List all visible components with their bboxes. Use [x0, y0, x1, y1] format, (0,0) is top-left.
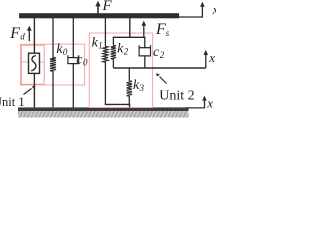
svg-text:x: x	[212, 2, 216, 17]
svg-text:2: 2	[160, 50, 165, 60]
svg-text:2: 2	[124, 46, 129, 56]
svg-text:0: 0	[83, 58, 88, 68]
svg-text:d: d	[20, 32, 25, 42]
svg-text:s: s	[166, 28, 170, 38]
svg-text:x: x	[206, 95, 213, 110]
svg-text:Unit 2: Unit 2	[159, 88, 194, 103]
svg-text:0: 0	[63, 47, 68, 57]
svg-text:1: 1	[98, 40, 103, 50]
svg-text:x: x	[208, 50, 215, 65]
svg-text:F: F	[9, 25, 20, 42]
svg-text:F: F	[102, 0, 113, 14]
svg-text:F: F	[155, 21, 166, 38]
svg-text:Unit 1: Unit 1	[0, 95, 25, 109]
svg-text:3: 3	[139, 83, 145, 93]
